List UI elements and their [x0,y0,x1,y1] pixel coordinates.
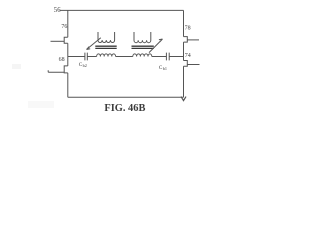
svg-text:76: 76 [61,24,67,30]
svg-text:68: 68 [59,57,65,63]
wire Q76 gate lead [51,40,65,42]
wire resonator rail segment to Cb2 [68,56,85,58]
wire Q76 source down to resonator rail [67,43,69,56]
wire Cb1 to right vertical [169,56,183,58]
transformer T2 core [132,45,154,47]
wire Q78 gate lead [187,39,199,41]
wire Q68 gate lead with input tick [48,70,64,72]
svg-text:74: 74 [185,53,191,59]
svg-text:b1: b1 [163,66,167,71]
T1 variable coupling arrow [87,38,101,50]
wire Q68 drain from rail junction [67,57,69,66]
wire top rail [60,9,184,11]
wire Q74 drain stub [183,57,185,61]
transistor Q68 (label 68) [59,57,65,63]
wire T1 to T2 [116,56,133,58]
transformer T2 secondary (top winding with stubs) [134,32,151,43]
wire Q74 gate lead [187,64,199,66]
wire bottom ground rail [68,96,184,98]
transformer T1 core [95,45,116,47]
transistor Q76 (label 76) [61,24,67,30]
transistor Q78 (label 78) [185,25,191,31]
scan smudge bottom-left [28,101,54,108]
transformer T1 secondary (top winding with stubs) [98,32,115,43]
transistor Q74 (label 74) [185,53,191,59]
svg-text:FIG. 46B: FIG. 46B [104,103,145,114]
capacitor Cb1 [166,53,169,61]
wire Q78 source to mid junction [183,42,185,56]
wire Q76 drain from top rail [67,10,69,37]
capacitor Cb2 [85,53,87,61]
node B+ supply label [54,7,61,14]
T2 variable coupling arrow [149,39,163,53]
scan smudge left [12,64,21,69]
wire T2 to Cb1 [152,56,167,58]
wire Cb2 to T1 [87,56,96,58]
transformer T1 primary (bottom winding) [97,54,116,57]
wire Q68 source down to ground rail [67,73,69,97]
svg-text:78: 78 [185,25,191,31]
svg-text:b2: b2 [83,63,87,68]
ground arrow [181,97,186,101]
wire right vertical / Q78 drain [183,10,185,36]
transformer T2 primary (bottom winding) [133,54,152,57]
wire Q74 source down to ground rail [183,66,185,97]
